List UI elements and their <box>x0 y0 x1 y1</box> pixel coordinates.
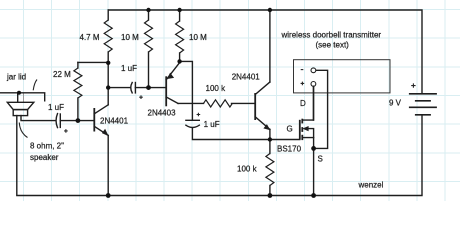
svg-text:1 uF: 1 uF <box>48 103 64 112</box>
svg-text:D: D <box>300 99 306 108</box>
svg-text:2N4401: 2N4401 <box>232 73 261 82</box>
svg-text:wireless doorbell transmitter: wireless doorbell transmitter <box>281 31 382 40</box>
svg-text:4.7 M: 4.7 M <box>80 33 100 42</box>
svg-text:BS170: BS170 <box>277 145 302 154</box>
svg-text:8 ohm, 2": 8 ohm, 2" <box>30 142 64 151</box>
svg-text:9 V: 9 V <box>389 99 402 108</box>
svg-text:jar lid: jar lid <box>6 73 26 82</box>
svg-text:1 uF: 1 uF <box>204 120 220 129</box>
svg-text:speaker: speaker <box>30 153 59 162</box>
svg-text:wenzel: wenzel <box>358 181 384 190</box>
svg-text:100 k: 100 k <box>237 165 258 174</box>
svg-text:10 M: 10 M <box>189 33 207 42</box>
svg-text:100 k: 100 k <box>206 84 227 93</box>
svg-text:(see text): (see text) <box>316 41 350 50</box>
svg-text:S: S <box>318 155 323 164</box>
svg-text:1 uF: 1 uF <box>121 64 137 73</box>
svg-text:2N4401: 2N4401 <box>100 117 129 126</box>
svg-text:G: G <box>287 125 293 134</box>
svg-text:2N4403: 2N4403 <box>148 109 177 118</box>
svg-text:10 M: 10 M <box>121 33 139 42</box>
svg-text:22 M: 22 M <box>53 70 71 79</box>
